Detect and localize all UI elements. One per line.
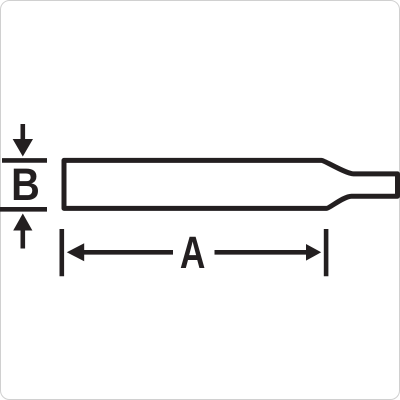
dim A right arrowhead [306,244,321,261]
svg-text:A: A [180,227,206,278]
dim B up arrow shaft [20,230,25,249]
dim A shaft right [215,250,308,255]
dim B bottom tick [0,207,47,212]
dim B down arrow shaft [20,124,25,140]
dim B up arrowhead [13,214,32,231]
dim B top tick [2,158,47,163]
file body outline [64,160,398,208]
dim A shaft left [83,250,173,255]
dim A right tick [324,229,329,276]
dim A left tick [59,229,64,276]
svg-text:B: B [11,159,40,210]
dim B down arrowhead [13,139,33,157]
dim A left arrowhead [67,243,84,261]
